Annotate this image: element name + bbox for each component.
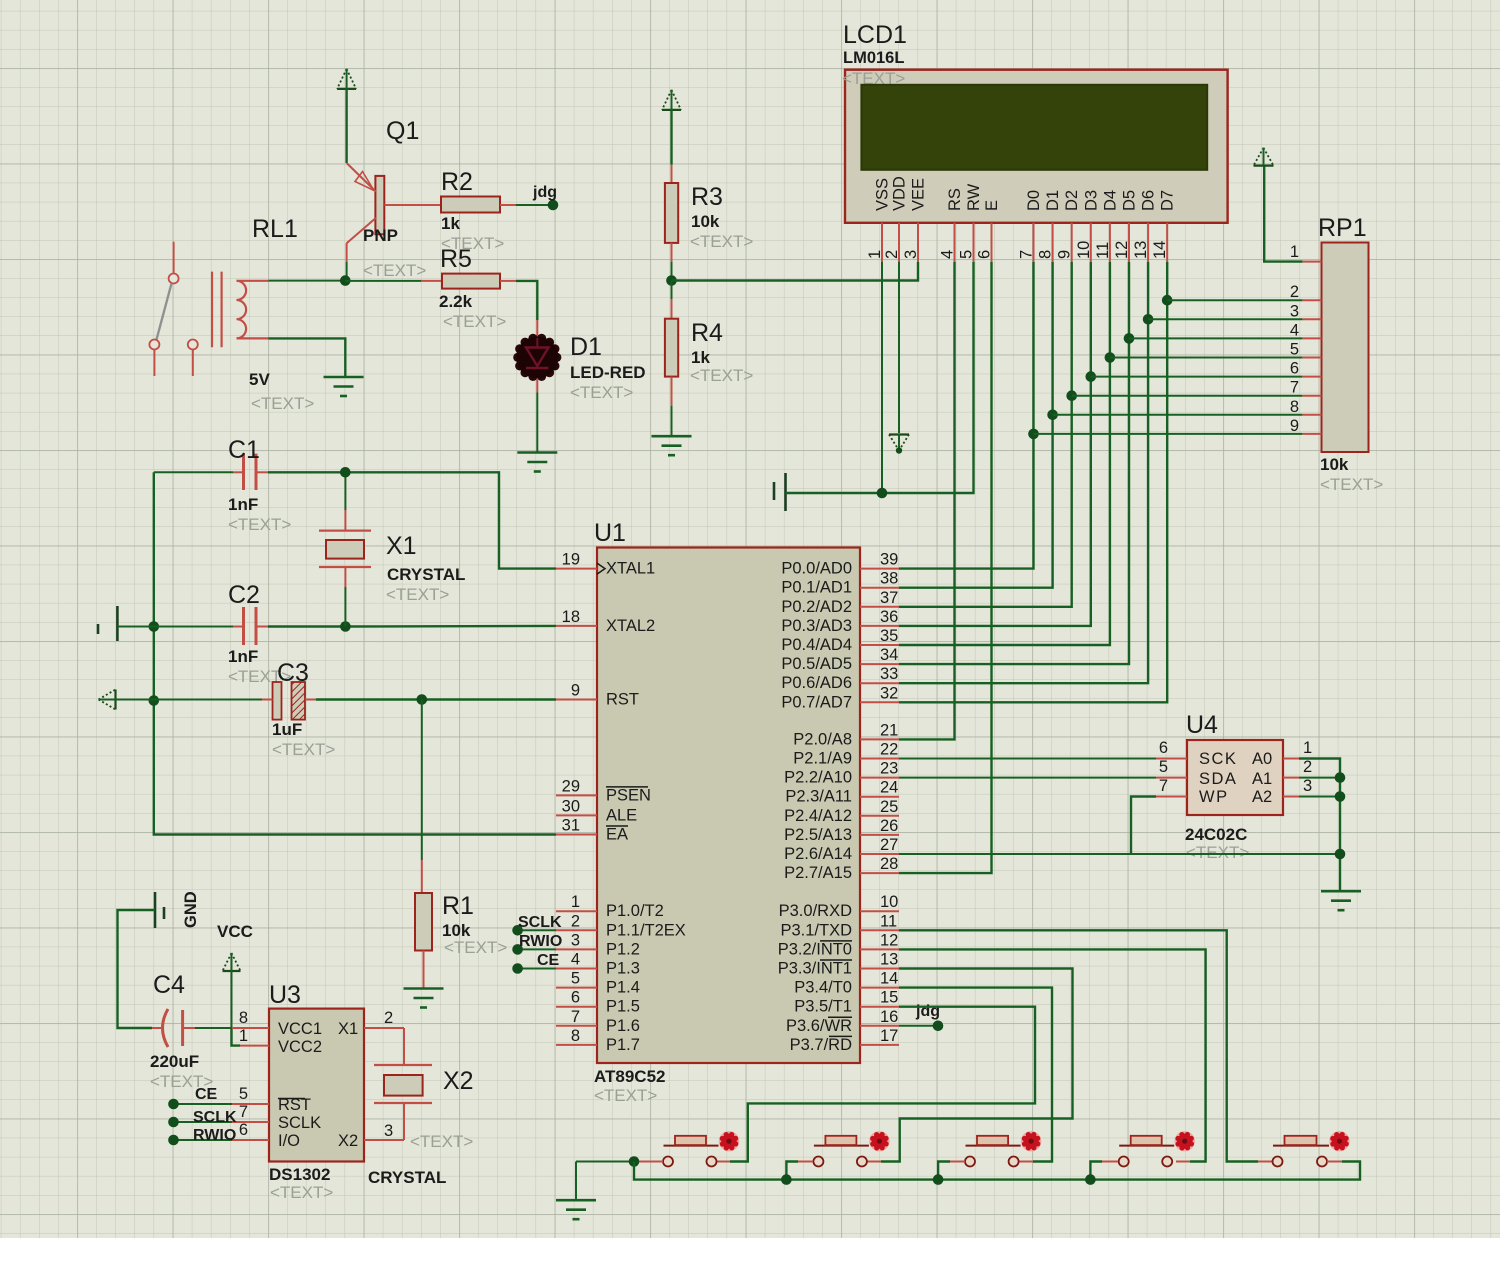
svg-text:38: 38 bbox=[880, 570, 898, 588]
power symbol (R3) bbox=[662, 90, 681, 110]
svg-text:5: 5 bbox=[1159, 758, 1168, 776]
svg-text:14: 14 bbox=[1151, 241, 1169, 259]
wire C2 to XTAL2 bbox=[268, 625, 556, 628]
IC U3 DS1302 bbox=[269, 1009, 364, 1162]
svg-text:P3.4/T0: P3.4/T0 bbox=[794, 979, 852, 997]
wire VCC2 link bbox=[232, 1028, 241, 1046]
svg-text:<TEXT>: <TEXT> bbox=[1320, 475, 1383, 494]
power rail terminal (C2) bbox=[116, 606, 119, 641]
U1 pin P0.6/AD6 (33) bbox=[860, 682, 899, 684]
svg-text:D1: D1 bbox=[1044, 190, 1062, 211]
wire R1 to ground bbox=[423, 951, 425, 989]
svg-text:31: 31 bbox=[562, 817, 580, 835]
svg-text:jdg: jdg bbox=[532, 184, 557, 201]
svg-text:1: 1 bbox=[1303, 739, 1312, 757]
svg-text:VCC2: VCC2 bbox=[278, 1038, 322, 1056]
svg-text:1k: 1k bbox=[691, 348, 710, 367]
wire rail to C3 bbox=[154, 699, 262, 701]
svg-text:R1: R1 bbox=[442, 892, 474, 920]
ground (R4) bbox=[652, 435, 692, 438]
transistor Q1 (PNP) bbox=[347, 163, 385, 281]
wire P3.5 to K1 bbox=[730, 1007, 1035, 1162]
svg-text:R4: R4 bbox=[691, 319, 723, 347]
LCD pin names bbox=[874, 176, 1177, 211]
U1 pin RST (9) bbox=[556, 699, 597, 701]
U1 pin P3.5 (15) bbox=[860, 1006, 899, 1008]
junction K1 / bus bbox=[629, 1156, 640, 1167]
svg-text:<TEXT>: <TEXT> bbox=[594, 1086, 657, 1105]
svg-text:5: 5 bbox=[958, 250, 976, 259]
svg-text:25: 25 bbox=[880, 798, 898, 816]
svg-text:C3: C3 bbox=[277, 659, 309, 687]
U3 pin names bbox=[278, 1020, 358, 1150]
resistor R1 bbox=[415, 893, 432, 951]
svg-text:7: 7 bbox=[1290, 379, 1299, 397]
svg-text:U1: U1 bbox=[594, 519, 626, 547]
U1 pin P1.0 (1) bbox=[556, 910, 597, 912]
wires data bus to RP1 pins 2-9 bbox=[1034, 300, 1303, 434]
svg-text:<TEXT>: <TEXT> bbox=[363, 261, 426, 280]
wire relay coil to node bbox=[269, 280, 346, 282]
svg-text:P1.0/T2: P1.0/T2 bbox=[606, 902, 664, 920]
svg-text:ALE: ALE bbox=[606, 806, 637, 824]
U1 pin P3.1 (11) bbox=[860, 929, 899, 931]
push button K3 bbox=[965, 1131, 1041, 1167]
svg-text:1nF: 1nF bbox=[228, 647, 258, 666]
IC U1 AT89C52 bbox=[597, 548, 860, 1064]
svg-text:6: 6 bbox=[976, 250, 994, 259]
svg-text:<TEXT>: <TEXT> bbox=[410, 1132, 473, 1151]
wire P3.1 to K5 bbox=[899, 930, 1258, 1161]
svg-text:2.2k: 2.2k bbox=[439, 292, 473, 311]
svg-text:10k: 10k bbox=[1320, 455, 1349, 474]
svg-text:8: 8 bbox=[1037, 250, 1055, 259]
U1 pin XTAL2 (18) bbox=[556, 625, 597, 627]
capacitor C1 bbox=[233, 454, 268, 490]
bus riser K4 bbox=[1090, 1162, 1102, 1180]
svg-text:AT89C52: AT89C52 bbox=[594, 1067, 666, 1086]
svg-text:32: 32 bbox=[880, 684, 898, 702]
wire A0-A2 to ground rail bbox=[1299, 759, 1340, 891]
svg-text:SCLK: SCLK bbox=[193, 1109, 237, 1126]
U1 pin P1.6 (7) bbox=[556, 1025, 597, 1027]
svg-text:RL1: RL1 bbox=[252, 215, 298, 243]
svg-text:14: 14 bbox=[880, 970, 898, 988]
LCD screen bbox=[861, 85, 1207, 170]
svg-text:X2: X2 bbox=[443, 1067, 474, 1095]
U1 pin P0.7/AD7 (32) bbox=[860, 701, 899, 703]
svg-text:P1.3: P1.3 bbox=[606, 960, 640, 978]
svg-text:15: 15 bbox=[880, 989, 898, 1007]
wire E to P2.7 bbox=[899, 262, 992, 873]
svg-text:P1.7: P1.7 bbox=[606, 1036, 640, 1054]
svg-text:4: 4 bbox=[939, 250, 957, 259]
wire P2.1 to SCK bbox=[899, 758, 1156, 760]
push button K5 bbox=[1273, 1131, 1350, 1167]
U1 pin P0.1/AD1 (38) bbox=[860, 587, 899, 589]
svg-text:D5: D5 bbox=[1121, 190, 1139, 211]
U4 pin 7 WP bbox=[1156, 796, 1187, 798]
svg-text:12: 12 bbox=[1113, 241, 1131, 259]
svg-text:7: 7 bbox=[239, 1103, 248, 1121]
svg-text:5: 5 bbox=[571, 970, 580, 988]
wire ground rail VSS-RW bbox=[786, 262, 974, 493]
U3 pin 1 VCC2 bbox=[240, 1045, 269, 1047]
svg-text:XTAL1: XTAL1 bbox=[606, 560, 655, 578]
svg-text:CRYSTAL: CRYSTAL bbox=[387, 565, 465, 584]
svg-text:8: 8 bbox=[239, 1009, 248, 1027]
svg-text:9: 9 bbox=[1056, 250, 1074, 259]
svg-text:PSEN: PSEN bbox=[606, 786, 651, 804]
svg-text:1: 1 bbox=[1290, 243, 1299, 261]
U4 pin 6 SCK bbox=[1156, 758, 1187, 760]
svg-text:I/O: I/O bbox=[278, 1132, 300, 1150]
svg-text:LCD1: LCD1 bbox=[843, 21, 907, 49]
svg-text:9: 9 bbox=[571, 682, 580, 700]
svg-text:12: 12 bbox=[880, 931, 898, 949]
wire P3.2 to K4 bbox=[899, 949, 1206, 1161]
svg-text:1: 1 bbox=[239, 1027, 248, 1045]
wire RST node to R1 bbox=[421, 700, 423, 861]
junction dots on data bus to RP1 bbox=[1028, 295, 1172, 439]
junction A2 rail bbox=[1335, 791, 1346, 802]
U1 pin P3.2 (12) bbox=[860, 948, 899, 950]
svg-text:RS: RS bbox=[946, 188, 964, 211]
svg-text:1uF: 1uF bbox=[272, 720, 302, 739]
RP1 pin stubs 2-9 bbox=[1302, 300, 1321, 434]
svg-text:8: 8 bbox=[1290, 398, 1299, 416]
svg-text:CE: CE bbox=[537, 952, 560, 969]
svg-text:1: 1 bbox=[571, 893, 580, 911]
svg-text:C4: C4 bbox=[153, 971, 185, 999]
svg-text:LM016L: LM016L bbox=[843, 49, 904, 67]
wire node to R4 bbox=[671, 281, 673, 300]
wire C4 to VCC1 bbox=[195, 1027, 232, 1029]
wire node to R5 bbox=[345, 280, 421, 282]
svg-text:6: 6 bbox=[239, 1121, 248, 1139]
button bus bbox=[634, 1162, 1360, 1180]
ground bubble (VDD) bbox=[889, 433, 909, 435]
LCD pin numbers 1-14 bbox=[866, 241, 1169, 259]
svg-text:4: 4 bbox=[571, 951, 580, 969]
wire R3 to node bbox=[671, 243, 673, 262]
junction VSS rail bbox=[877, 488, 888, 499]
U3 pin 6 I/O RWIO net bbox=[232, 1139, 269, 1141]
svg-text:10: 10 bbox=[880, 893, 898, 911]
svg-text:33: 33 bbox=[880, 665, 898, 683]
svg-text:<TEXT>: <TEXT> bbox=[690, 366, 753, 385]
svg-text:PNP: PNP bbox=[363, 226, 398, 245]
power symbol 5V rail (Q1 collector) bbox=[337, 69, 356, 89]
svg-text:WP: WP bbox=[1199, 788, 1229, 806]
junction node Q1/relay/R5 bbox=[340, 275, 351, 286]
wire P3.4 to K3 bbox=[899, 988, 1052, 1162]
push button K1 bbox=[663, 1131, 739, 1167]
svg-text:1k: 1k bbox=[441, 214, 460, 233]
U4 pin 3 A2 bbox=[1283, 796, 1299, 798]
U1 pin P0.4/AD4 (35) bbox=[860, 644, 899, 646]
svg-text:8: 8 bbox=[571, 1027, 580, 1045]
svg-text:R2: R2 bbox=[441, 168, 473, 196]
svg-text:2: 2 bbox=[1290, 283, 1299, 301]
svg-text:P3.7/RD: P3.7/RD bbox=[790, 1036, 852, 1054]
svg-text:P1.2: P1.2 bbox=[606, 940, 640, 958]
U1 pin P2.3/A11 (24) bbox=[860, 796, 899, 798]
svg-text:SCLK: SCLK bbox=[518, 914, 562, 931]
U1 pin P0.0/AD0 (39) bbox=[860, 568, 899, 570]
svg-text:24: 24 bbox=[880, 779, 898, 797]
svg-text:VSS: VSS bbox=[874, 178, 892, 211]
resistor R2 bbox=[441, 197, 500, 213]
svg-text:<TEXT>: <TEXT> bbox=[1186, 843, 1249, 862]
resistor pack RP1 bbox=[1322, 243, 1369, 453]
svg-text:U4: U4 bbox=[1186, 711, 1218, 739]
node jdg bbox=[548, 200, 559, 211]
wire ground to K1 bbox=[576, 1161, 628, 1163]
svg-text:3: 3 bbox=[902, 250, 920, 259]
svg-text:CRYSTAL: CRYSTAL bbox=[368, 1168, 446, 1187]
U1 pin P0.2/AD2 (37) bbox=[860, 606, 899, 608]
svg-text:P1.5: P1.5 bbox=[606, 998, 640, 1016]
junction A1 rail bbox=[1335, 772, 1346, 783]
svg-text:RWIO: RWIO bbox=[193, 1127, 236, 1144]
svg-text:P2.4/A12: P2.4/A12 bbox=[784, 807, 852, 825]
U3 pin 7 SCLK net bbox=[232, 1121, 269, 1123]
svg-text:P0.2/AD2: P0.2/AD2 bbox=[781, 598, 852, 616]
wire left rail C1 bbox=[154, 471, 233, 473]
wire R4 to ground bbox=[671, 377, 673, 406]
wire RWIO net (P1.2) bbox=[518, 948, 556, 950]
svg-text:P2.5/A13: P2.5/A13 bbox=[784, 826, 852, 844]
U1 pin P3.4 (14) bbox=[860, 987, 899, 989]
ground (D1) bbox=[517, 451, 557, 454]
svg-text:P1.4: P1.4 bbox=[606, 979, 640, 997]
svg-text:P2.3/A11: P2.3/A11 bbox=[785, 788, 852, 806]
wire R5 to D1 bbox=[500, 280, 516, 282]
svg-text:R3: R3 bbox=[691, 183, 723, 211]
svg-text:XTAL2: XTAL2 bbox=[606, 617, 655, 635]
svg-text:P0.0/AD0: P0.0/AD0 bbox=[781, 560, 852, 578]
U1 pin P3.6 (16) bbox=[860, 1025, 899, 1027]
svg-text:5: 5 bbox=[239, 1085, 248, 1103]
U1 pin P3.7 (17) bbox=[860, 1044, 899, 1046]
U4 pin 5 SDA bbox=[1156, 777, 1187, 779]
svg-text:LED-RED: LED-RED bbox=[570, 363, 646, 382]
svg-text:P1.1/T2EX: P1.1/T2EX bbox=[606, 921, 686, 939]
left rail (C1-C2-C3-EA) bbox=[154, 472, 556, 834]
IC U4 24C02C bbox=[1187, 740, 1283, 815]
U1 pin P1.3 (4) bbox=[556, 968, 597, 970]
svg-text:RWIO: RWIO bbox=[519, 933, 562, 950]
node VEE divider bbox=[666, 275, 677, 286]
svg-text:D0: D0 bbox=[1025, 190, 1043, 211]
svg-text:34: 34 bbox=[880, 646, 898, 664]
svg-text:7: 7 bbox=[571, 1008, 580, 1026]
svg-text:<TEXT>: <TEXT> bbox=[228, 515, 291, 534]
svg-text:23: 23 bbox=[880, 760, 898, 778]
wire C3 to RST bbox=[316, 698, 556, 700]
svg-text:30: 30 bbox=[562, 797, 580, 815]
svg-text:3: 3 bbox=[571, 931, 580, 949]
push button K4 bbox=[1119, 1131, 1195, 1167]
wire rail to C2 bbox=[154, 626, 233, 628]
RP1 pin 1 wire and power symbol bbox=[1302, 261, 1321, 263]
svg-text:P3.2/INT0: P3.2/INT0 bbox=[778, 940, 852, 958]
svg-text:DS1302: DS1302 bbox=[269, 1165, 330, 1184]
svg-text:SCLK: SCLK bbox=[278, 1114, 321, 1132]
svg-text:D2: D2 bbox=[1063, 190, 1081, 211]
wire R2 to jdg bbox=[500, 204, 516, 206]
svg-text:27: 27 bbox=[880, 836, 898, 854]
LED D1 bbox=[513, 334, 561, 381]
svg-text:R5: R5 bbox=[440, 245, 472, 273]
svg-text:11: 11 bbox=[1094, 242, 1112, 259]
ground (relay) bbox=[324, 376, 364, 379]
svg-text:1nF: 1nF bbox=[228, 495, 258, 514]
ground (buttons) bbox=[575, 1162, 577, 1200]
svg-text:P0.6/AD6: P0.6/AD6 bbox=[781, 674, 852, 692]
svg-text:2: 2 bbox=[883, 250, 901, 259]
svg-text:P0.5/AD5: P0.5/AD5 bbox=[781, 655, 852, 673]
svg-text:P0.1/AD1: P0.1/AD1 bbox=[781, 579, 852, 597]
svg-text:6: 6 bbox=[1159, 739, 1168, 757]
svg-text:CE: CE bbox=[195, 1086, 218, 1103]
svg-text:RST: RST bbox=[606, 691, 639, 709]
wire P2.6 / WP ground run bbox=[899, 853, 1340, 855]
U1 pin XTAL1 (19) bbox=[556, 568, 597, 570]
svg-text:P3.3/INT1: P3.3/INT1 bbox=[778, 960, 852, 978]
svg-text:P2.1/A9: P2.1/A9 bbox=[793, 750, 852, 768]
junction RST / R1 bbox=[417, 694, 428, 705]
power rail terminal (VSS/RW) bbox=[784, 473, 787, 511]
svg-text:P0.7/AD7: P0.7/AD7 bbox=[781, 693, 852, 711]
wire P2.2 to SDA bbox=[899, 777, 1156, 779]
svg-text:<TEXT>: <TEXT> bbox=[443, 312, 506, 331]
U4 pin names bbox=[1199, 750, 1272, 806]
resistor R3 bbox=[665, 183, 678, 243]
RP1 pin numbers bbox=[1290, 283, 1299, 435]
capacitor C3 1uF bbox=[262, 682, 316, 720]
U1 pin P1.1 (2) bbox=[556, 929, 597, 931]
svg-text:A2: A2 bbox=[1252, 788, 1272, 806]
wire C1 row to XTAL1 bbox=[268, 471, 345, 473]
svg-text:U3: U3 bbox=[269, 981, 301, 1009]
svg-text:21: 21 bbox=[880, 721, 898, 739]
svg-text:2: 2 bbox=[1303, 758, 1312, 776]
U1 pin P1.4 (5) bbox=[556, 987, 597, 989]
svg-text:C1: C1 bbox=[228, 436, 260, 464]
U1 pin EA (31) bbox=[556, 834, 597, 836]
svg-text:RP1: RP1 bbox=[1318, 214, 1367, 242]
U1 pin P1.7 (8) bbox=[556, 1044, 597, 1046]
svg-text:D6: D6 bbox=[1140, 190, 1158, 211]
svg-text:24C02C: 24C02C bbox=[1185, 825, 1247, 844]
svg-text:VCC1: VCC1 bbox=[278, 1020, 322, 1038]
U1 pin P2.5/A13 (26) bbox=[860, 834, 899, 836]
junction ground run bbox=[1335, 849, 1346, 860]
svg-text:C2: C2 bbox=[228, 581, 260, 609]
svg-text:10k: 10k bbox=[691, 212, 720, 231]
svg-text:P3.1/TXD: P3.1/TXD bbox=[780, 921, 852, 939]
svg-text:5V: 5V bbox=[249, 370, 270, 389]
wire node to LCD VEE bbox=[672, 262, 919, 281]
svg-text:18: 18 bbox=[562, 608, 580, 626]
wire VCC down bbox=[231, 971, 233, 1028]
U1 pin P2.7/A15 (28) bbox=[860, 872, 899, 874]
U1 pin P2.4/A12 (25) bbox=[860, 815, 899, 817]
svg-text:<TEXT>: <TEXT> bbox=[272, 740, 335, 759]
U1 pin P3.3 (13) bbox=[860, 968, 899, 970]
svg-text:VCC: VCC bbox=[217, 922, 253, 941]
svg-text:16: 16 bbox=[880, 1008, 898, 1026]
svg-text:4: 4 bbox=[1290, 321, 1299, 339]
svg-text:A1: A1 bbox=[1252, 770, 1272, 788]
svg-text:<TEXT>: <TEXT> bbox=[251, 394, 314, 413]
wire RS to P2.0 bbox=[899, 262, 955, 739]
wire P3.6 to jdg bbox=[899, 1025, 938, 1027]
svg-text:10: 10 bbox=[1075, 241, 1093, 259]
U3 pin 3 X2 bbox=[364, 1139, 404, 1141]
svg-text:6: 6 bbox=[1290, 360, 1299, 378]
svg-text:2: 2 bbox=[571, 912, 580, 930]
svg-text:2: 2 bbox=[384, 1009, 393, 1027]
svg-text:D4: D4 bbox=[1101, 190, 1119, 211]
junction X1 bottom bbox=[340, 621, 351, 632]
svg-text:P3.0/RXD: P3.0/RXD bbox=[779, 902, 852, 920]
svg-text:SDA: SDA bbox=[1199, 770, 1237, 788]
GND terminal bbox=[154, 892, 157, 928]
svg-text:VDD: VDD bbox=[891, 176, 909, 211]
wire power to Q1 bbox=[345, 89, 347, 163]
svg-text:3: 3 bbox=[384, 1122, 393, 1140]
U4 pin 2 A1 bbox=[1283, 777, 1299, 779]
junction C3 rail bbox=[149, 695, 160, 706]
svg-text:<TEXT>: <TEXT> bbox=[444, 938, 507, 957]
svg-text:A0: A0 bbox=[1252, 750, 1272, 768]
svg-text:5: 5 bbox=[1290, 341, 1299, 359]
crystal X1 bbox=[319, 472, 371, 626]
svg-text:17: 17 bbox=[880, 1027, 898, 1045]
svg-text:P1.6: P1.6 bbox=[606, 1017, 640, 1035]
bus riser K3 bbox=[938, 1162, 950, 1180]
wire Q1 base to R2 bbox=[384, 204, 441, 206]
svg-text:D3: D3 bbox=[1082, 190, 1100, 211]
U1 pin P2.0/A8 (21) bbox=[860, 738, 899, 740]
resistor R5 bbox=[442, 274, 500, 289]
resistor R4 bbox=[665, 319, 678, 377]
U1 pin P2.2/A10 (23) bbox=[860, 777, 899, 779]
svg-text:SCK: SCK bbox=[1199, 750, 1237, 768]
svg-text:13: 13 bbox=[880, 951, 898, 969]
svg-text:7: 7 bbox=[1018, 250, 1036, 259]
svg-text:9: 9 bbox=[1290, 417, 1299, 435]
U1 pin P1.2 (3) bbox=[556, 948, 597, 950]
svg-text:<TEXT>: <TEXT> bbox=[570, 383, 633, 402]
input arrow (RST rail) bbox=[99, 690, 116, 710]
U1 pin P2.6/A14 (27) bbox=[860, 853, 899, 855]
svg-text:1: 1 bbox=[866, 250, 884, 259]
crystal X2 bbox=[374, 1028, 432, 1140]
U1 pin P3.0 (10) bbox=[860, 910, 899, 912]
capacitor C4 220uF bbox=[152, 1009, 195, 1047]
svg-text:P2.2/A10: P2.2/A10 bbox=[784, 769, 852, 787]
svg-text:P0.4/AD4: P0.4/AD4 bbox=[781, 636, 852, 654]
svg-text:X1: X1 bbox=[338, 1020, 358, 1038]
svg-text:36: 36 bbox=[880, 608, 898, 626]
svg-text:<TEXT>: <TEXT> bbox=[690, 232, 753, 251]
node jdg (P3.6) bbox=[933, 1021, 944, 1032]
svg-text:7: 7 bbox=[1159, 777, 1168, 795]
